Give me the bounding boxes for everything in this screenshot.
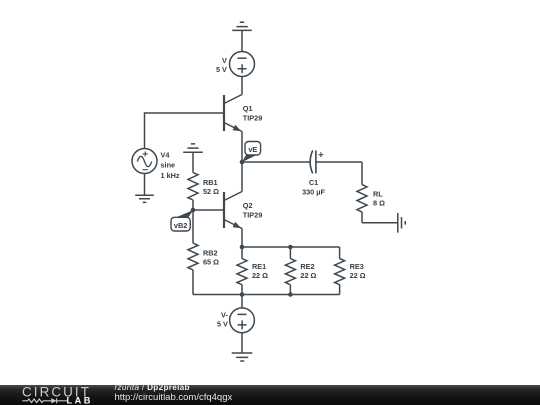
node label vB2 [171,210,193,231]
label V- 5 V [217,310,229,328]
label Q1 TIP29 [243,104,262,123]
svg-text:RE3: RE3 [350,262,364,271]
svg-text:TIP29: TIP29 [243,211,262,220]
resistor RE1 [237,247,247,295]
transistor Q1 [224,95,242,132]
svg-text:vE: vE [248,145,257,154]
capacitor C1 (polarized) [310,150,323,173]
wire vE to C1 [242,161,310,163]
footer bar [0,385,540,405]
resistor RB1 [188,173,198,211]
wire V4 to Q1 base [145,113,225,149]
label RB1 52 ohm [203,178,219,196]
ground (below V-) [232,353,253,361]
wire emitter top rail [242,246,340,248]
svg-text:8 Ω: 8 Ω [373,199,385,208]
svg-text:RB2: RB2 [203,248,218,257]
voltage source V (5 V) [230,52,255,77]
wire V4 to ground [144,174,146,196]
wire RB1/RB2 to Q2 base [193,209,224,211]
svg-text:vB2: vB2 [174,221,187,230]
svg-text:22 Ω: 22 Ω [252,271,268,280]
wire C1 to RL [316,162,362,185]
voltage source V4 (sine) [132,149,157,174]
label V4 sine 1 kHz [161,150,180,180]
wire RL to ground [362,222,398,224]
svg-text:C1: C1 [309,178,318,187]
wire Q2 emitter to emitter rail [241,229,243,248]
label C1 330 uF [302,178,325,196]
svg-text:Q1: Q1 [243,104,253,113]
wire V- to ground [241,333,243,353]
label RE1 22 ohm [252,262,268,280]
label RL 8 ohm [373,189,385,207]
transistor Q2 [224,192,242,229]
svg-text:Q2: Q2 [243,201,253,210]
svg-text:22 Ω: 22 Ω [300,271,316,280]
node vB2 junction dot [191,208,196,213]
resistor RL [357,185,367,223]
label RB2 65 ohm [203,248,219,266]
svg-text:5 V: 5 V [216,65,227,74]
wire V to Q1 collector [241,77,243,95]
junction dot V- top [240,292,245,297]
resistor RE3 [335,247,345,295]
CircuitLab logo [0,385,100,405]
svg-text:sine: sine [161,161,176,170]
svg-text:RE1: RE1 [252,262,266,271]
voltage source V- (5 V) [230,308,255,333]
label Q2 TIP29 [243,201,262,220]
junction dot RE2 bottom [288,292,293,297]
label V 5 V [216,56,227,74]
label RE2 22 ohm [300,262,316,280]
wire Q1 emitter to Q2 collector (node vE) [241,132,243,192]
svg-text:330 µF: 330 µF [302,187,325,196]
svg-text:RE2: RE2 [300,262,314,271]
ground (right of RL, sideways) [398,213,405,233]
svg-text:V4: V4 [161,150,171,159]
ground (below V4) [135,195,154,202]
svg-text:65 Ω: 65 Ω [203,258,219,267]
junction dot RE1 top [240,245,245,250]
node label vE [242,142,261,163]
resistor RE2 [285,247,295,295]
svg-text:RL: RL [373,189,383,198]
svg-text:1 kHz: 1 kHz [161,171,180,180]
junction dot RE2 top [288,245,293,250]
svg-text:TIP29: TIP29 [243,113,262,122]
node vE junction dot [240,160,245,165]
svg-text:22 Ω: 22 Ω [350,271,366,280]
wire emitter bottom rail [193,294,340,296]
svg-text:V: V [222,56,227,65]
wire rail to V- [241,295,243,309]
ground (top, above V supply) [232,22,252,51]
resistor RB2 [188,210,198,295]
ground (above RB1) [183,144,203,173]
svg-text:RB1: RB1 [203,178,218,187]
svg-text:5 V: 5 V [217,320,228,329]
svg-text:LAB: LAB [67,396,93,405]
label RE3 22 ohm [350,262,366,280]
svg-text:52 Ω: 52 Ω [203,187,219,196]
svg-text:V-: V- [221,310,228,319]
